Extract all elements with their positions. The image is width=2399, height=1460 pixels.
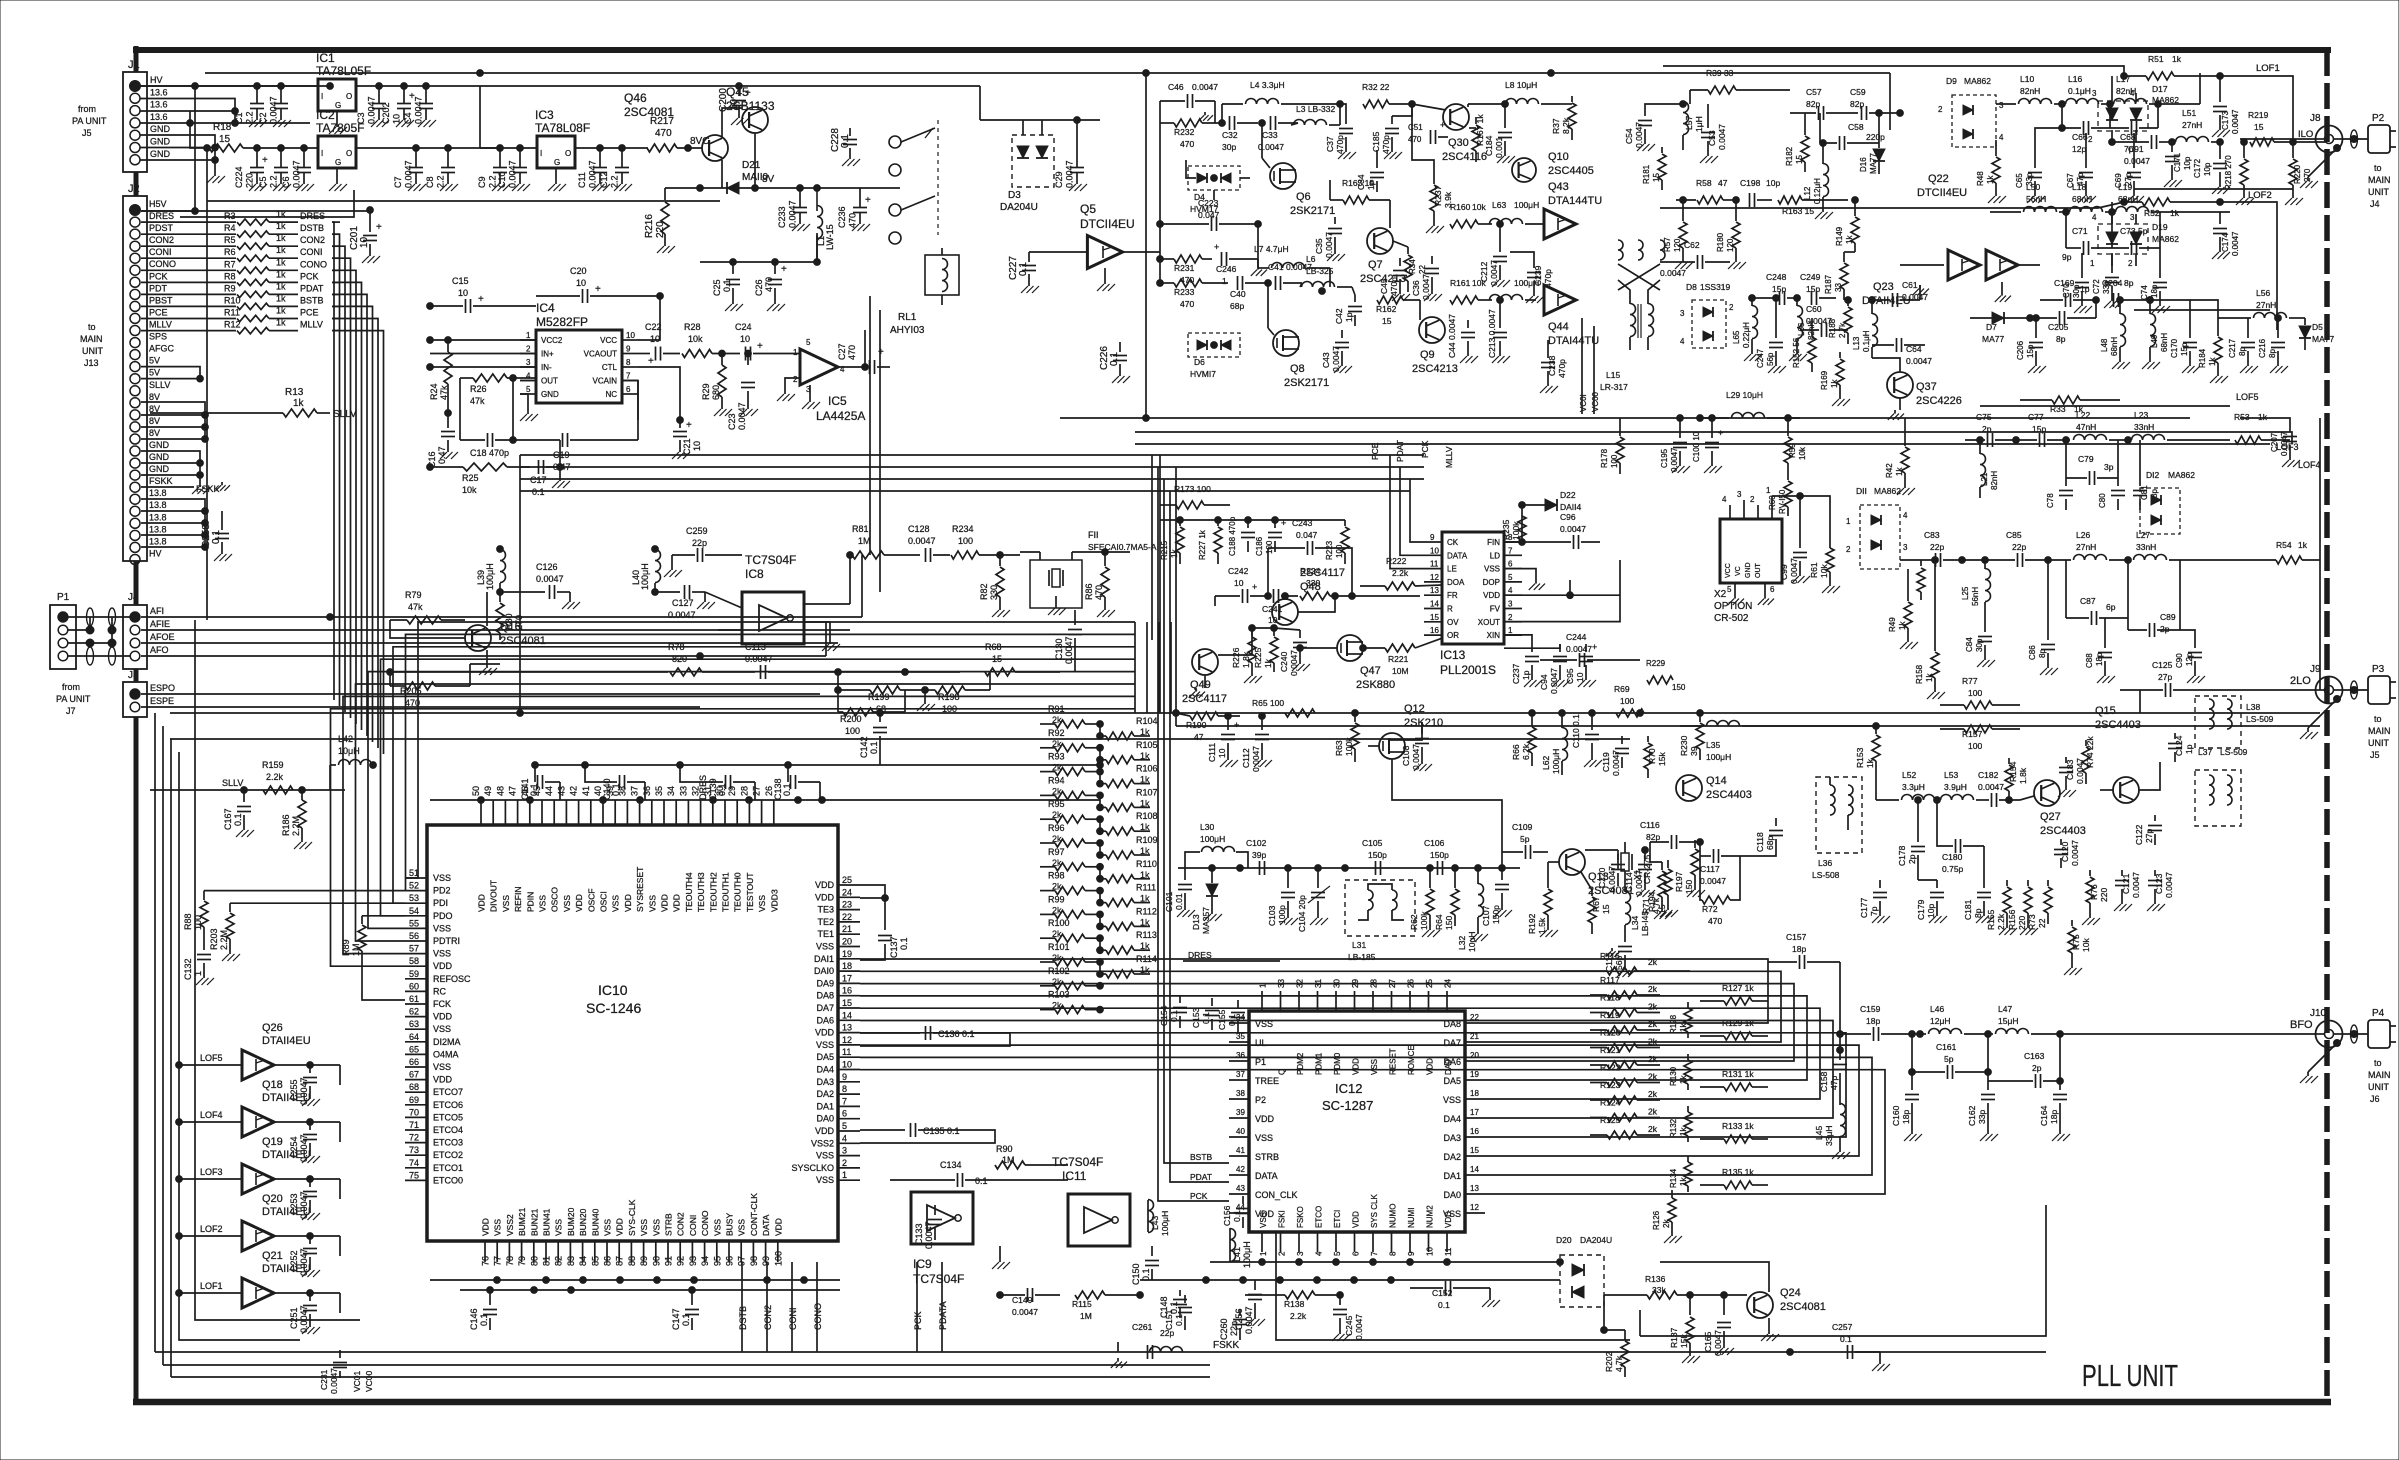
wire Q45 collector to C233 rail — [754, 133, 756, 188]
svg-text:47p: 47p — [1829, 1076, 1839, 1090]
svg-text:R81: R81 — [852, 524, 869, 534]
svg-text:XOUT: XOUT — [1478, 618, 1500, 627]
capacitor C85 22p — [1962, 530, 2051, 567]
svg-text:Q15: Q15 — [2095, 705, 2116, 717]
svg-text:DI2: DI2 — [2146, 470, 2160, 480]
svg-text:220p: 220p — [1866, 132, 1885, 142]
wire L1 to C25 C26 — [700, 235, 820, 265]
svg-text:0.0047: 0.0047 — [1549, 668, 1559, 694]
svg-text:120: 120 — [1673, 238, 1682, 252]
svg-text:C151: C151 — [1164, 1309, 1174, 1330]
capacitor C185 470p — [1371, 104, 1412, 159]
svg-text:J8: J8 — [2310, 113, 2321, 124]
svg-text:1k: 1k — [1895, 467, 1904, 476]
svg-text:J2: J2 — [128, 183, 140, 195]
svg-text:13.8: 13.8 — [149, 500, 167, 510]
svg-text:R61: R61 — [1809, 562, 1819, 578]
resistor R113 1k — [1100, 930, 1157, 954]
svg-text:42: 42 — [1236, 1165, 1245, 1174]
wire H5V trunk — [141, 210, 370, 212]
capacitor C228 0.1 — [830, 128, 860, 166]
svg-text:L15: L15 — [1606, 370, 1620, 380]
transistor Q30 2SC4116 — [1412, 104, 1487, 163]
svg-text:15: 15 — [1470, 1146, 1479, 1155]
svg-text:R59: R59 — [1788, 443, 1797, 458]
capacitor C183 0.0047 — [2058, 757, 2085, 797]
svg-text:47: 47 — [1718, 178, 1728, 188]
svg-text:2k: 2k — [1648, 957, 1658, 967]
svg-text:R39 33: R39 33 — [1706, 68, 1734, 78]
wire AF bus right elbow 2 — [1146, 622, 1148, 713]
svg-text:C43: C43 — [1321, 352, 1331, 368]
svg-text:TEOUTH4: TEOUTH4 — [684, 872, 694, 912]
resistor R127 1k — [1700, 983, 1768, 1005]
svg-text:2SC4117: 2SC4117 — [1182, 693, 1227, 705]
svg-text:SC-1246: SC-1246 — [586, 1000, 641, 1016]
net label LOF2 — [2220, 190, 2277, 330]
svg-text:47nH: 47nH — [2076, 422, 2096, 432]
capacitor C45 470p — [1379, 258, 1410, 301]
capacitor C206 15p — [2016, 315, 2046, 373]
svg-text:DA5: DA5 — [816, 1052, 834, 1062]
resistor R173 100 — [1160, 484, 1230, 509]
svg-text:R109: R109 — [1136, 835, 1158, 845]
svg-text:R5: R5 — [224, 235, 236, 245]
wire net y672 — [387, 669, 668, 676]
capacitor C150 0.1 — [1131, 1246, 1159, 1285]
svg-text:+: + — [478, 294, 484, 305]
svg-text:13.8: 13.8 — [149, 512, 167, 522]
svg-text:C179: C179 — [1916, 899, 1926, 920]
svg-text:C128: C128 — [908, 524, 930, 534]
svg-text:1k: 1k — [1898, 621, 1907, 630]
svg-text:C162: C162 — [1967, 1105, 1977, 1126]
svg-text:P2: P2 — [1255, 1095, 1266, 1105]
resistor R122 2k — [1590, 1063, 1660, 1087]
svg-text:2: 2 — [1508, 613, 1513, 622]
svg-text:J7: J7 — [66, 706, 76, 716]
svg-text:L19: L19 — [2118, 182, 2132, 192]
svg-text:L36: L36 — [1818, 858, 1832, 868]
capacitor C182 0.0047 — [1976, 770, 2020, 807]
svg-text:C130: C130 — [1054, 638, 1064, 660]
resistor R24 47k — [429, 337, 452, 420]
svg-text:13: 13 — [1430, 586, 1439, 595]
wire 2LO to jack — [2240, 689, 2316, 691]
svg-text:C23: C23 — [727, 413, 737, 430]
net label PCE — [300, 308, 319, 318]
svg-text:TC7S04F: TC7S04F — [745, 553, 796, 567]
svg-text:0.0047: 0.0047 — [2164, 872, 2174, 898]
svg-text:L57: L57 — [1684, 116, 1694, 130]
svg-text:2.2k: 2.2k — [1996, 913, 2006, 930]
svg-text:Q18: Q18 — [262, 1079, 283, 1091]
svg-text:NC: NC — [605, 390, 617, 399]
svg-text:R118: R118 — [1600, 993, 1620, 1003]
svg-text:CONO: CONO — [300, 259, 327, 269]
svg-text:PCE: PCE — [300, 308, 319, 318]
svg-text:R182: R182 — [1785, 146, 1794, 166]
svg-text:Q8: Q8 — [1290, 363, 1305, 375]
connector J9 — [2300, 664, 2343, 739]
svg-text:R63: R63 — [1334, 740, 1344, 756]
capacitor C134 0.1 — [890, 1160, 1068, 1187]
svg-text:0.1: 0.1 — [1438, 1300, 1450, 1310]
svg-text:0.1: 0.1 — [532, 487, 545, 497]
label DRES low — [1183, 950, 1280, 961]
wire Q18 out — [274, 1122, 340, 1142]
svg-text:10: 10 — [1430, 546, 1439, 555]
svg-text:42: 42 — [569, 786, 579, 796]
wire into Q5 — [1029, 251, 1087, 253]
svg-text:J5: J5 — [128, 670, 139, 681]
svg-text:220: 220 — [2099, 888, 2109, 902]
wire Q15 out right — [2139, 762, 2160, 790]
svg-text:C180: C180 — [1942, 852, 1963, 862]
svg-text:C183: C183 — [2065, 759, 2075, 780]
svg-text:27p: 27p — [2158, 672, 2172, 682]
resistor R117 2k — [1590, 975, 1660, 999]
svg-text:C24: C24 — [735, 322, 752, 332]
resistor R66 6.2k — [1511, 710, 1536, 766]
svg-text:100: 100 — [1610, 454, 1619, 468]
wire PLL vertical x1176 — [1175, 467, 1177, 726]
digital transistor Q21 DTAII4EU — [242, 1250, 311, 1308]
transistor Q47 2SK880 — [1337, 635, 1395, 691]
resistor R76 220 — [2082, 870, 2109, 925]
svg-text:SYS-CLK: SYS-CLK — [627, 1199, 637, 1236]
capacitor C9 2.2 — [477, 148, 510, 191]
capacitor C181 8p — [1963, 846, 1994, 923]
svg-text:DA0: DA0 — [1443, 1190, 1461, 1200]
capacitor C60 0.0047 — [1800, 304, 1848, 337]
svg-text:1: 1 — [1846, 517, 1851, 526]
wire AF bus elbow 5 — [368, 672, 1135, 929]
svg-text:L47: L47 — [1998, 1004, 2012, 1014]
svg-text:R155: R155 — [1986, 909, 1996, 930]
svg-text:L35: L35 — [1706, 740, 1720, 750]
svg-text:Q5: Q5 — [1080, 202, 1096, 216]
svg-text:R48: R48 — [1976, 171, 1985, 186]
svg-text:1SS319: 1SS319 — [1700, 282, 1731, 292]
svg-text:SYSCLKO: SYSCLKO — [791, 1163, 834, 1173]
resistor R126 2k — [1652, 1190, 1682, 1243]
svg-text:36: 36 — [642, 786, 652, 796]
inductor L23 33nH — [2132, 410, 2231, 440]
inductor L26 27nH — [2048, 530, 2131, 563]
capacitor C259 22p — [664, 526, 742, 577]
svg-text:+: + — [878, 347, 884, 358]
resistor R136 33k — [1604, 1274, 1747, 1299]
capacitor C59 82p — [1850, 87, 1903, 120]
svg-text:CON2: CON2 — [763, 1305, 773, 1330]
svg-text:C149: C149 — [1012, 1295, 1033, 1305]
resistor R153 1k — [1855, 723, 1880, 775]
svg-text:BUSY: BUSY — [725, 1213, 735, 1236]
digital transistor Q18 DTAII4EU — [242, 1079, 311, 1137]
svg-text:C26: C26 — [754, 279, 764, 296]
resistor R161 10k — [1450, 278, 1492, 304]
capacitor C156 0.1 — [1222, 1196, 1250, 1228]
label FSKK — [196, 482, 230, 494]
wire bus drop 1 — [766, 1262, 768, 1352]
resistor R37 8.2k — [1551, 96, 1576, 140]
resistor R134 1k — [1669, 1156, 1692, 1192]
capacitor C21 10 — [672, 420, 702, 459]
svg-text:100μH: 100μH — [485, 563, 495, 590]
capacitor C204 8p — [2102, 278, 2153, 307]
svg-text:MAIN: MAIN — [80, 334, 103, 344]
capacitor C252 0.0047 — [289, 1233, 320, 1277]
svg-text:C106: C106 — [1424, 838, 1445, 848]
ground R198 mid — [917, 690, 935, 711]
svg-text:56: 56 — [409, 931, 419, 941]
svg-text:VDD: VDD — [1352, 1058, 1361, 1075]
connector J4 — [123, 592, 175, 669]
svg-text:PA UNIT: PA UNIT — [56, 694, 91, 704]
svg-text:VCAOUT: VCAOUT — [584, 350, 617, 359]
svg-text:23: 23 — [842, 900, 852, 910]
svg-text:680: 680 — [711, 385, 721, 400]
svg-text:R115: R115 — [1072, 1299, 1092, 1309]
svg-text:NUMI: NUMI — [1407, 1208, 1416, 1228]
wire ladder link 9 — [1097, 938, 1104, 953]
svg-text:82nH: 82nH — [2116, 86, 2136, 96]
svg-text:D20: D20 — [1556, 1235, 1572, 1245]
resistor R149 1k — [1835, 197, 1859, 252]
svg-text:2p: 2p — [2032, 1063, 2042, 1073]
digital transistor Q43 DTA144TU — [1544, 181, 1602, 239]
capacitor C78 - — [2046, 437, 2073, 510]
svg-text:47k: 47k — [470, 396, 485, 406]
svg-text:C170: C170 — [2170, 338, 2179, 358]
svg-text:Q37: Q37 — [1916, 381, 1937, 393]
svg-text:57: 57 — [409, 944, 419, 954]
svg-text:R178: R178 — [1600, 448, 1609, 468]
capacitor C254 0.0047 — [289, 1119, 320, 1163]
svg-text:C9: C9 — [477, 176, 487, 188]
svg-text:SC-1287: SC-1287 — [1322, 1098, 1373, 1113]
svg-text:9: 9 — [842, 1072, 847, 1082]
svg-text:C86: C86 — [2028, 645, 2037, 660]
svg-text:12μH: 12μH — [1930, 1016, 1951, 1026]
svg-text:91: 91 — [664, 1256, 674, 1266]
wire C20 right down — [638, 296, 660, 340]
wire bus drop 3 — [816, 1262, 818, 1352]
wire IC1 output rail — [356, 83, 742, 90]
svg-text:10: 10 — [1575, 672, 1585, 682]
wire ILO to jack — [2240, 138, 2316, 140]
resistor R114 1k — [1100, 954, 1157, 978]
svg-text:7: 7 — [1370, 1251, 1379, 1256]
capacitor C17 0.1 — [530, 440, 563, 497]
connector J10 — [2300, 1008, 2343, 1083]
svg-text:C118: C118 — [1755, 832, 1765, 852]
svg-text:C184: C184 — [1484, 135, 1494, 156]
svg-text:L41: L41 — [1232, 1247, 1242, 1262]
svg-text:2.2: 2.2 — [269, 175, 279, 188]
svg-text:C241: C241 — [1262, 604, 1283, 614]
svg-text:56nH: 56nH — [1971, 587, 1980, 606]
IC10 bottom pins — [481, 1193, 784, 1266]
svg-text:C181: C181 — [1963, 899, 1973, 920]
inductor L19 68nH — [2116, 182, 2231, 212]
net label DSTB — [300, 223, 324, 233]
svg-text:C239: C239 — [1533, 265, 1543, 286]
wire LOF2 rail — [1660, 202, 2124, 208]
svg-text:Q12: Q12 — [1404, 703, 1425, 715]
svg-text:ETCI: ETCI — [1333, 1210, 1342, 1228]
connector J1 — [123, 59, 171, 172]
svg-text:R235: R235 — [1501, 519, 1511, 540]
svg-text:DA6: DA6 — [1443, 1057, 1461, 1067]
crystal X1 CR-275 — [1618, 842, 1652, 890]
svg-text:5V: 5V — [149, 356, 160, 366]
svg-text:C109: C109 — [1512, 822, 1533, 832]
svg-text:BSTB: BSTB — [1190, 1152, 1213, 1162]
wire AFIE line — [141, 629, 850, 631]
svg-text:2: 2 — [842, 1158, 847, 1168]
capacitor C198 10p — [1740, 178, 1780, 207]
resistor R82 330 shunt — [979, 552, 1010, 617]
capacitor C12 2.2 — [599, 148, 632, 191]
svg-text:DA3: DA3 — [1443, 1133, 1461, 1143]
svg-text:7: 7 — [1508, 546, 1513, 555]
svg-text:1k: 1k — [1170, 549, 1179, 558]
svg-text:R200: R200 — [840, 714, 862, 724]
svg-text:15p: 15p — [2026, 344, 2035, 358]
svg-text:PDST: PDST — [149, 223, 174, 233]
svg-text:+: + — [648, 356, 654, 367]
resistor R58 47 — [1676, 178, 1736, 204]
wire AFI line — [141, 614, 862, 621]
svg-text:4.7k: 4.7k — [1614, 1355, 1624, 1372]
svg-text:0.0047: 0.0047 — [1713, 1330, 1723, 1356]
svg-text:0.0047: 0.0047 — [536, 574, 564, 584]
svg-text:R108: R108 — [1136, 811, 1158, 821]
resistor R178 100 — [1600, 418, 1624, 474]
resistor R51 1k — [2121, 54, 2224, 80]
capacitor C169 1p — [2040, 278, 2099, 307]
svg-text:C11: C11 — [577, 172, 587, 188]
capacitor C96 0.0047 — [1504, 512, 1600, 549]
svg-text:LB-185: LB-185 — [1348, 952, 1376, 962]
svg-text:C18 470p: C18 470p — [470, 448, 509, 458]
svg-text:100k: 100k — [1419, 911, 1429, 930]
svg-text:0.0047: 0.0047 — [269, 96, 279, 124]
transistor Q37 2SC4226 — [1872, 358, 1962, 407]
svg-text:FIN: FIN — [1487, 538, 1500, 547]
wire IC2 out rail — [356, 145, 500, 152]
wire ladder link 0 — [1097, 724, 1104, 739]
svg-text:C117: C117 — [1700, 864, 1720, 874]
svg-text:100: 100 — [845, 726, 860, 736]
svg-text:0.0047: 0.0047 — [1065, 160, 1075, 188]
svg-text:FSKI: FSKI — [1278, 1210, 1287, 1228]
svg-text:2SK2171: 2SK2171 — [1284, 377, 1329, 389]
svg-text:5p: 5p — [1944, 1054, 1954, 1064]
svg-text:CONI: CONI — [149, 247, 172, 257]
svg-text:0.1: 0.1 — [681, 1313, 691, 1326]
wire trunk H5V — [141, 208, 198, 215]
svg-text:33p: 33p — [1977, 1110, 1987, 1124]
svg-text:8V: 8V — [149, 416, 160, 426]
svg-text:R18: R18 — [213, 122, 232, 133]
svg-text:CONO: CONO — [700, 1210, 710, 1236]
resistor R79 47k — [390, 590, 465, 624]
wire J2 CONI to ladder — [141, 257, 236, 259]
border frame right edge (dashed) — [2324, 50, 2330, 1402]
svg-text:C78: C78 — [2046, 493, 2055, 508]
svg-text:DOA: DOA — [1447, 578, 1465, 587]
svg-text:27nH: 27nH — [2076, 542, 2096, 552]
svg-text:43: 43 — [1236, 1184, 1245, 1193]
svg-text:87: 87 — [615, 1256, 625, 1266]
svg-text:R9: R9 — [224, 283, 236, 293]
svg-text:R125: R125 — [1600, 1115, 1621, 1125]
svg-text:10: 10 — [740, 334, 750, 344]
svg-text:63: 63 — [409, 1019, 419, 1029]
svg-text:TA78L05F: TA78L05F — [316, 64, 371, 78]
svg-text:C260: C260 — [1219, 1318, 1229, 1340]
svg-text:R121: R121 — [1600, 1045, 1621, 1055]
svg-text:Q21: Q21 — [262, 1250, 283, 1262]
svg-text:0.0047: 0.0047 — [2231, 231, 2240, 256]
svg-text:0.0047: 0.0047 — [668, 610, 696, 620]
wire AF bus right elbow 1 — [1134, 622, 1136, 713]
capacitor C258 0.1 — [201, 511, 232, 561]
resistor R108 1k — [1100, 811, 1158, 835]
svg-text:C89: C89 — [2160, 612, 2176, 622]
svg-text:10: 10 — [1268, 615, 1278, 625]
wire ESPO line — [141, 693, 820, 695]
resistor R187 33 — [1824, 252, 1855, 300]
svg-text:UL: UL — [1255, 1038, 1267, 1048]
resistor R138 2.2k — [1245, 1291, 1343, 1321]
svg-text:2.2: 2.2 — [610, 175, 620, 188]
wire Q26 out — [274, 1065, 340, 1085]
svg-text:15p: 15p — [2180, 342, 2189, 356]
inductor L17 82nH — [2114, 73, 2201, 104]
svg-text:R52: R52 — [2144, 208, 2160, 218]
svg-text:18p: 18p — [1901, 1110, 1911, 1124]
capacitor C244 0.0047 — [1540, 632, 1640, 667]
svg-text:16: 16 — [842, 986, 852, 996]
svg-text:PBST: PBST — [149, 295, 173, 305]
svg-text:C103: C103 — [1267, 905, 1277, 926]
svg-text:C83: C83 — [1924, 530, 1940, 540]
svg-text:85: 85 — [590, 1256, 600, 1266]
resistor R225 1k — [1253, 628, 1278, 672]
svg-text:0.1: 0.1 — [840, 134, 851, 148]
svg-text:R49: R49 — [1888, 617, 1897, 632]
svg-text:10: 10 — [729, 98, 740, 110]
svg-text:R99: R99 — [1048, 894, 1065, 904]
svg-text:150p: 150p — [1430, 850, 1449, 860]
inductor L49 68nH — [2142, 297, 2169, 369]
capacitor C33 0.0047 — [1258, 116, 1298, 152]
svg-text:C164: C164 — [2039, 1105, 2049, 1126]
svg-text:0.047: 0.047 — [1296, 530, 1318, 540]
svg-text:BSTB: BSTB — [300, 295, 324, 305]
svg-text:C133: C133 — [914, 1223, 924, 1245]
svg-text:PCE: PCE — [149, 307, 168, 317]
digital transistor Q44 DTA144TU — [1544, 285, 1599, 347]
capacitor C54 0.0047 — [1624, 104, 1683, 151]
capacitor C114 0.0047 — [1624, 847, 1655, 897]
svg-text:Q6: Q6 — [1296, 191, 1311, 203]
resistor R70 15k — [1644, 736, 1667, 778]
